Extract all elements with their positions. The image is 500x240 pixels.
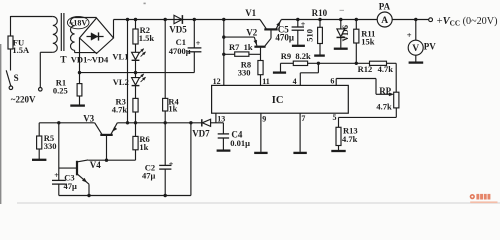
svg-text:4.7k: 4.7k: [112, 104, 128, 114]
svg-text:R10: R10: [312, 8, 328, 18]
svg-text:1.5k: 1.5k: [139, 33, 155, 43]
svg-text:+: +: [407, 30, 412, 40]
svg-text:4.7k: 4.7k: [376, 101, 392, 111]
svg-text:510: 510: [305, 29, 315, 42]
svg-text:7: 7: [301, 114, 305, 123]
svg-text:1.5A: 1.5A: [12, 45, 30, 55]
svg-text:VL2: VL2: [113, 77, 129, 87]
svg-text:~18V: ~18V: [69, 19, 87, 28]
svg-text:47μ: 47μ: [64, 181, 78, 191]
svg-text:A: A: [381, 16, 388, 26]
svg-text:11: 11: [262, 77, 270, 86]
svg-text:V1: V1: [245, 8, 256, 18]
svg-text:R12: R12: [358, 64, 373, 74]
svg-text:S: S: [14, 73, 19, 83]
svg-text:0.01μ: 0.01μ: [230, 138, 250, 148]
svg-text:V4: V4: [90, 160, 101, 170]
svg-text:4.7k: 4.7k: [378, 64, 394, 74]
svg-text:R9 8.2k: R9 8.2k: [281, 51, 311, 61]
svg-text:6: 6: [330, 76, 334, 85]
svg-text:RP: RP: [379, 86, 391, 96]
svg-text:VD5: VD5: [169, 24, 187, 34]
svg-text:5: 5: [333, 113, 337, 122]
svg-text:~220V: ~220V: [11, 95, 36, 105]
svg-text:VD7: VD7: [192, 129, 210, 139]
svg-text:IC: IC: [272, 95, 284, 106]
svg-text:12: 12: [213, 77, 221, 86]
svg-text:V: V: [412, 44, 419, 54]
svg-text:15k: 15k: [361, 36, 375, 46]
svg-text:+: +: [301, 20, 306, 29]
svg-text:VD6: VD6: [340, 25, 350, 42]
svg-text:+: +: [54, 171, 59, 180]
svg-text:T: T: [60, 55, 67, 65]
svg-text:9: 9: [262, 114, 266, 123]
svg-text:0.25: 0.25: [53, 85, 68, 95]
svg-text:VD1~VD4: VD1~VD4: [71, 55, 109, 65]
svg-text:4700μ: 4700μ: [169, 46, 191, 56]
svg-text:VL1: VL1: [112, 51, 128, 61]
svg-text:R7 1k: R7 1k: [229, 42, 253, 52]
svg-text:4: 4: [293, 77, 297, 86]
svg-text:+: +: [196, 39, 201, 48]
svg-text:V3: V3: [83, 113, 94, 123]
svg-text:330: 330: [238, 67, 251, 77]
svg-text:330: 330: [44, 141, 57, 151]
svg-text:PV: PV: [424, 42, 436, 52]
svg-text:+: +: [169, 160, 174, 169]
svg-text:470μ: 470μ: [275, 33, 294, 43]
svg-text:1k: 1k: [139, 142, 148, 152]
svg-text:+VCC (0~20V): +VCC (0~20V): [437, 16, 498, 27]
svg-text:47μ: 47μ: [142, 170, 156, 180]
svg-text:1k: 1k: [168, 104, 177, 114]
svg-text:PA: PA: [379, 1, 391, 11]
svg-text:4.7k: 4.7k: [342, 134, 358, 144]
svg-text:V2: V2: [246, 27, 257, 37]
